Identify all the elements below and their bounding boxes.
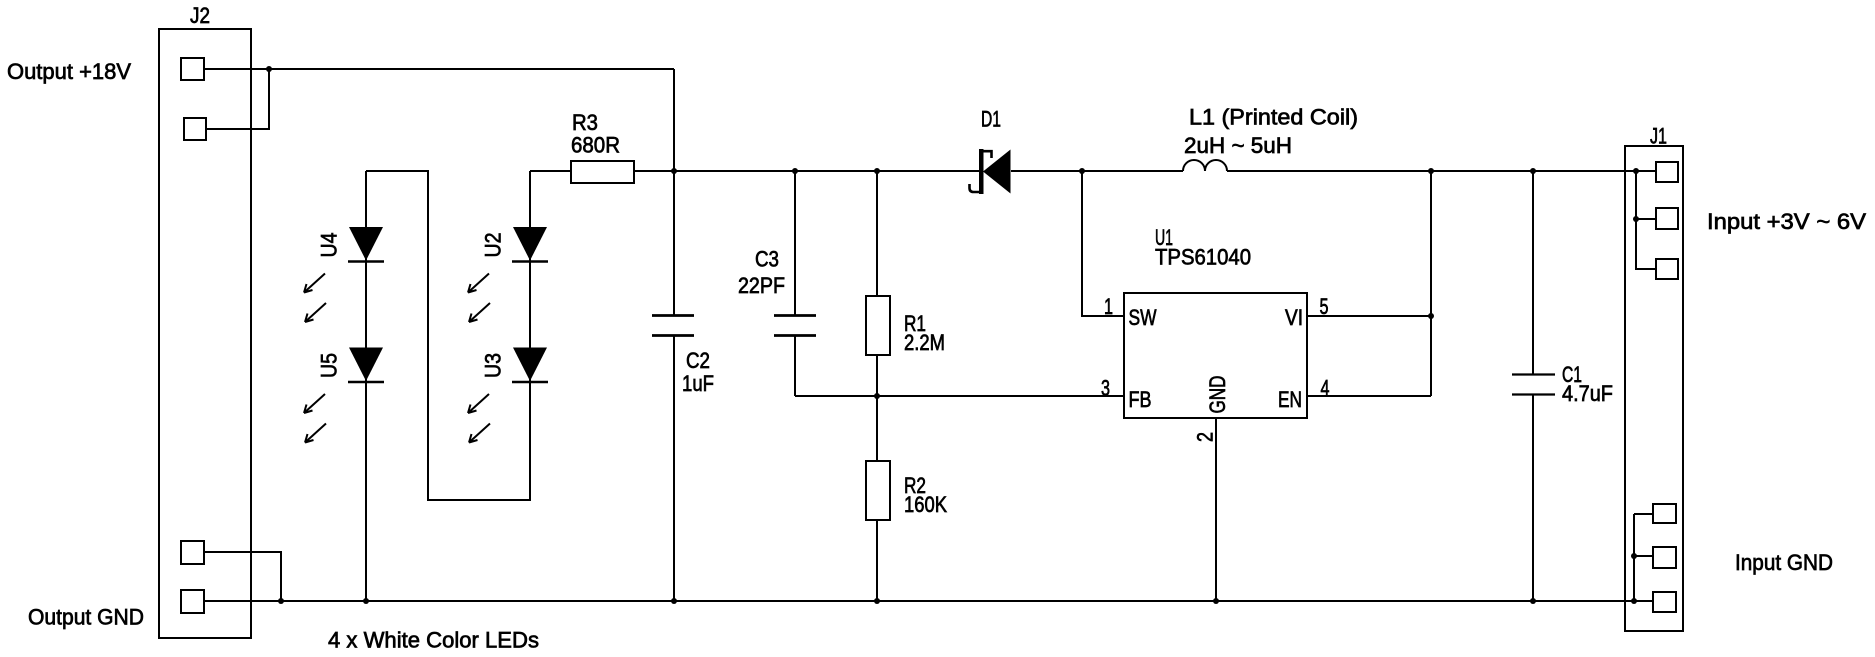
- svg-text:D1: D1: [981, 107, 1001, 132]
- junction VI pin branch: [1428, 313, 1434, 319]
- wire J2 pin2 up to +18V rail: [206, 69, 269, 129]
- wire C3 top: [794, 171, 796, 315]
- svg-text:U3: U3: [481, 353, 506, 378]
- svg-text:VI: VI: [1285, 305, 1303, 330]
- junction GND rail at J2 pin3: [278, 598, 284, 604]
- junction J1 pin5 tie: [1631, 553, 1637, 559]
- wire output rail R3 to D1: [634, 170, 979, 172]
- svg-text:L1 (Printed Coil): L1 (Printed Coil): [1189, 105, 1358, 130]
- J1 pin 3: [1656, 259, 1678, 279]
- svg-text:FB: FB: [1129, 387, 1152, 412]
- junction GND rail at LED string: [363, 598, 369, 604]
- wire C1 top: [1532, 171, 1534, 374]
- resistor R2 body: [866, 461, 890, 520]
- LED U5: [304, 348, 384, 443]
- junction GND rail at R2 bottom: [874, 598, 880, 604]
- junction FB node at R1/R2 divider: [874, 393, 880, 399]
- wire L1 to J1: [1227, 170, 1656, 172]
- wire C3 bottom to FB net: [794, 336, 796, 396]
- wire LED string U2/U3 serpentine: [366, 171, 530, 500]
- svg-text:SW: SW: [1129, 305, 1157, 330]
- svg-text:1: 1: [1104, 294, 1113, 319]
- wire U1 pin 2 GND down: [1215, 418, 1217, 601]
- svg-text:4.7uF: 4.7uF: [1562, 381, 1613, 406]
- svg-text:J1: J1: [1650, 124, 1667, 149]
- junction GND rail at U1 pin2: [1213, 598, 1219, 604]
- wire J1 pin4 stub: [1634, 513, 1653, 515]
- wire VI/EN up to input rail: [1430, 171, 1432, 396]
- wire C1 bottom: [1532, 394, 1534, 601]
- wire U1 pin 4 EN: [1307, 395, 1431, 397]
- junction input rail at VI branch: [1428, 168, 1434, 174]
- wire J2 pin3 down to GND rail: [204, 552, 281, 601]
- svg-text:2: 2: [1193, 432, 1218, 442]
- svg-text:Input +3V ~ 6V: Input +3V ~ 6V: [1707, 209, 1866, 234]
- svg-text:Output +18V: Output +18V: [7, 59, 131, 84]
- wire +18V feed down to output node: [673, 69, 675, 315]
- svg-text:4 x White Color LEDs: 4 x White Color LEDs: [328, 628, 539, 653]
- connector J2: [159, 29, 251, 638]
- wire SW node to U1 pin 1: [1082, 171, 1124, 316]
- svg-text:C2: C2: [686, 348, 710, 373]
- junction input rail at C1 top: [1530, 168, 1536, 174]
- wire R1 top: [876, 171, 878, 296]
- J1 pin 6: [1653, 592, 1676, 612]
- svg-text:22PF: 22PF: [738, 273, 785, 298]
- svg-text:U4: U4: [317, 233, 342, 258]
- junction GND rail at C1 bottom: [1530, 598, 1536, 604]
- svg-text:R3: R3: [572, 110, 598, 135]
- IC U1 TPS61040 body: [1124, 293, 1307, 418]
- svg-text:U2: U2: [481, 233, 506, 258]
- svg-text:GND: GND: [1205, 376, 1230, 414]
- svg-text:Input GND: Input GND: [1735, 550, 1833, 575]
- diode D1 (Schottky): [970, 149, 1011, 194]
- wire LED string U4/U5 down to GND: [365, 171, 367, 601]
- capacitor C1 plates: [1512, 373, 1555, 375]
- svg-text:Output GND: Output GND: [28, 605, 144, 630]
- LED U3: [468, 348, 548, 443]
- junction output node at C2 top: [671, 168, 677, 174]
- svg-text:U5: U5: [317, 353, 342, 378]
- wire C2 bottom to GND: [673, 336, 675, 601]
- junction output node at R1 top: [874, 168, 880, 174]
- svg-text:TPS61040: TPS61040: [1155, 245, 1251, 270]
- J2 pin 4: [181, 590, 204, 613]
- wire J1 input bus top: [1636, 171, 1656, 269]
- wire output rail left of R3: [530, 170, 571, 172]
- J2 pin 2: [184, 118, 206, 140]
- wire D1 to L1: [1011, 170, 1183, 172]
- wire R2 bottom to GND: [876, 520, 878, 601]
- svg-text:1uF: 1uF: [682, 371, 714, 396]
- svg-text:160K: 160K: [904, 492, 947, 517]
- junction input rail at J1 bus: [1633, 168, 1639, 174]
- svg-text:C3: C3: [755, 247, 779, 272]
- J1 pin 2: [1656, 208, 1678, 229]
- svg-text:5: 5: [1320, 294, 1329, 319]
- capacitor C2 plates: [652, 314, 694, 317]
- junction output node at C3 top: [792, 168, 798, 174]
- junction J1 pin2 tie: [1633, 216, 1639, 222]
- LED U4: [304, 227, 384, 322]
- wire J1 pin2 stub: [1636, 218, 1656, 220]
- svg-text:680R: 680R: [571, 133, 620, 158]
- J2 pin 3: [181, 541, 204, 564]
- resistor R3 body: [571, 161, 634, 183]
- wire J1 pin5 stub: [1634, 555, 1653, 557]
- wire J2 pin1 to +18V rail: [204, 68, 674, 70]
- J1 pin 4: [1653, 504, 1676, 523]
- junction SW node: [1079, 168, 1085, 174]
- junction J2 pins 1-2 tie: [266, 66, 272, 72]
- resistor R1 body: [866, 296, 890, 355]
- wire FB net to U1 pin 3: [795, 395, 1124, 397]
- wire J1 gnd bus bottom: [1633, 514, 1635, 601]
- LED U2: [468, 227, 548, 322]
- wire bottom GND rail: [204, 600, 1653, 602]
- svg-text:EN: EN: [1278, 387, 1302, 412]
- connector J1: [1625, 146, 1683, 631]
- inductor L1 coil: [1183, 160, 1227, 171]
- junction GND rail at J1 bus: [1631, 598, 1637, 604]
- svg-text:J2: J2: [190, 3, 210, 28]
- J1 pin 5: [1653, 547, 1676, 568]
- svg-text:4: 4: [1321, 376, 1330, 401]
- wire R1 bottom to R2 top: [876, 355, 878, 461]
- J2 pin 1: [181, 58, 204, 80]
- J1 pin 1: [1656, 162, 1678, 182]
- capacitor C3 plates: [774, 314, 816, 317]
- svg-text:3: 3: [1101, 376, 1110, 401]
- svg-text:2uH ~ 5uH: 2uH ~ 5uH: [1184, 133, 1292, 158]
- junction GND rail at C2 bottom: [671, 598, 677, 604]
- svg-text:2.2M: 2.2M: [904, 330, 945, 355]
- wire U1 pin 5 VI: [1307, 315, 1431, 317]
